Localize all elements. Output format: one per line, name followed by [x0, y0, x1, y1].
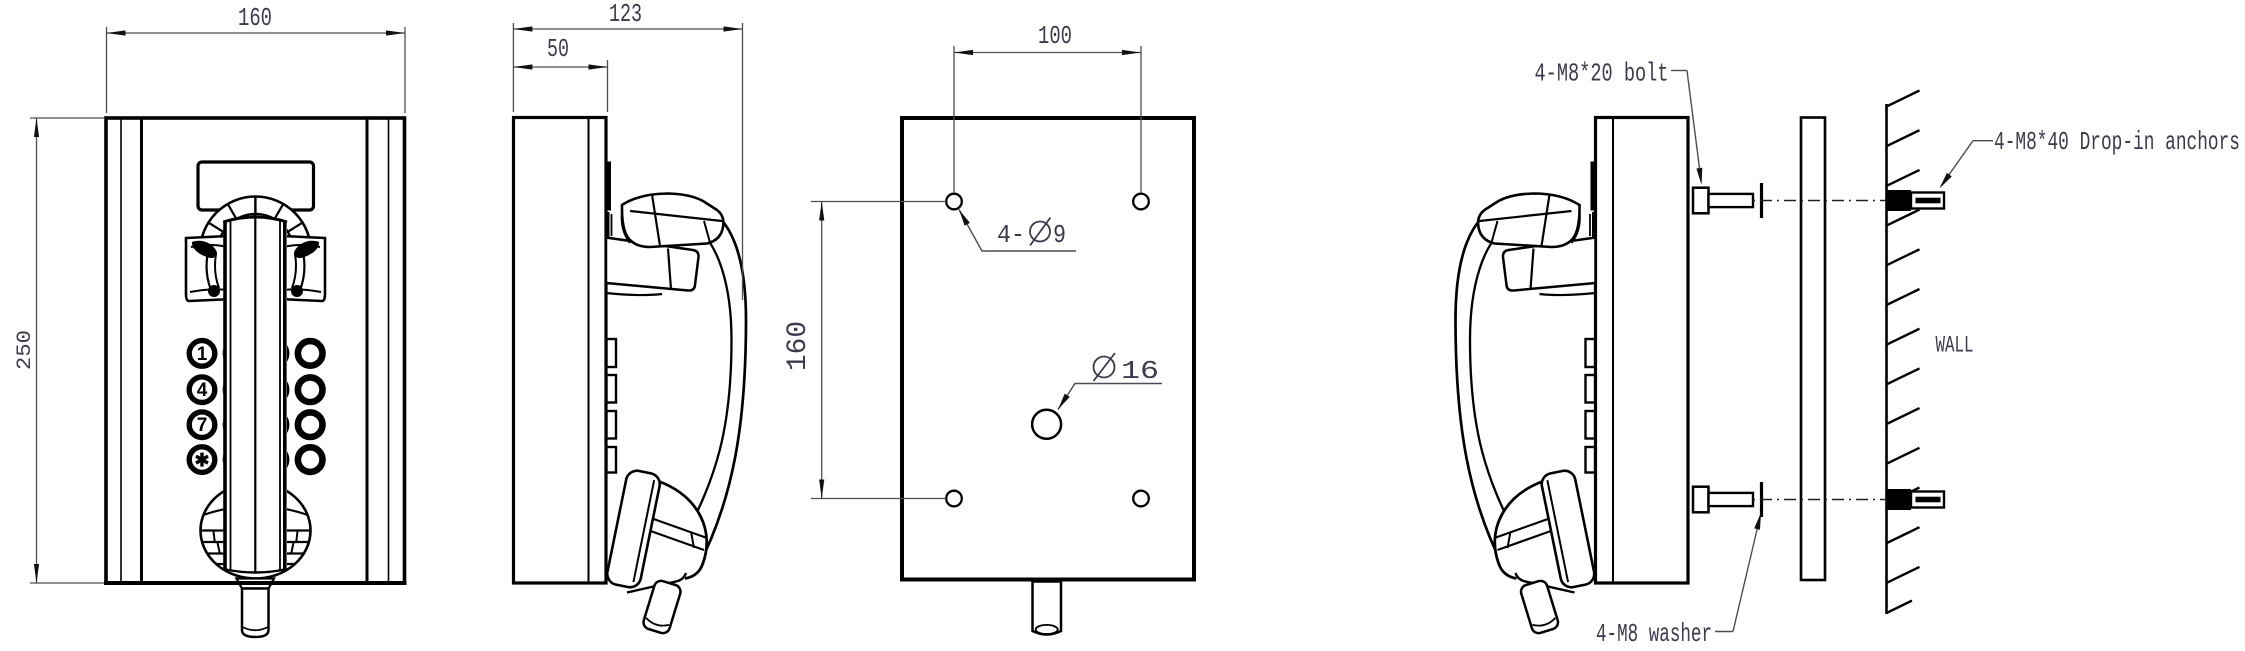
- svg-text:160: 160: [783, 321, 814, 371]
- svg-text:100: 100: [1038, 21, 1072, 51]
- svg-text:160: 160: [238, 3, 272, 33]
- rear view: back plate: [902, 118, 1194, 580]
- rear dim 160: [783, 202, 946, 499]
- front dim 160 top: [107, 3, 406, 113]
- rear leader D16: [1058, 353, 1162, 410]
- svg-text:250: 250: [14, 330, 37, 370]
- front view: mouthpiece dome with louvers: [201, 483, 311, 579]
- install view: top washer: [1760, 183, 1763, 218]
- front view: body bottom edge over dome: [104, 581, 407, 585]
- side dim 50: [513, 34, 607, 112]
- svg-text:4-: 4-: [997, 220, 1025, 250]
- front view: handset handle (vertical): [223, 197, 287, 573]
- svg-text:123: 123: [609, 0, 642, 29]
- svg-text:9: 9: [1053, 220, 1066, 250]
- install view: top drop-in anchor: [1887, 190, 1945, 211]
- svg-text:4: 4: [197, 380, 208, 401]
- svg-text:16: 16: [1121, 356, 1159, 386]
- install view: top bolt M8x20: [1693, 188, 1753, 214]
- install view: bottom drop-in anchor: [1887, 489, 1945, 510]
- rear view: center cable hole: [1032, 410, 1061, 439]
- rear dim 100: [954, 21, 1141, 193]
- front dim 250 left: [14, 118, 104, 583]
- svg-text:7: 7: [197, 415, 208, 436]
- install view: bottom bolt M8x20: [1693, 487, 1753, 513]
- front view: keypad right column buttons: [298, 341, 323, 472]
- install view: mounting plate: [1801, 118, 1825, 581]
- svg-text:4-M8*20 bolt: 4-M8*20 bolt: [1535, 59, 1669, 89]
- side dim 123: [513, 0, 742, 300]
- front view: cable gland: [237, 579, 275, 638]
- front view: left cradle hook: [186, 236, 230, 301]
- svg-text:1: 1: [197, 344, 208, 365]
- rear view: 4 mounting holes: [946, 194, 962, 210]
- label: 4-M8*20 bolt: [1535, 59, 1703, 186]
- svg-text:4-M8 washer: 4-M8 washer: [1596, 619, 1712, 649]
- front view: middle keypad columns (hidden behind handle, slivers visible): [225, 341, 287, 473]
- front view: phone body outline: [106, 118, 405, 583]
- svg-text:WALL: WALL: [1936, 333, 1974, 360]
- install view: wall hatching: [1887, 91, 1920, 614]
- front view: earpiece dome with radial band: [200, 197, 311, 308]
- label: 4-M8 washer: [1596, 513, 1761, 650]
- svg-text:4-M8*40 Drop-in anchors: 4-M8*40 Drop-in anchors: [1994, 127, 2240, 157]
- install view: top centerline: [1753, 200, 1888, 202]
- side view placed: [514, 118, 747, 635]
- install view: bottom washer: [1760, 482, 1763, 517]
- install view: wall line: [1885, 104, 1888, 614]
- svg-text:50: 50: [547, 34, 569, 64]
- rear view: cable gland: [1033, 582, 1062, 635]
- front view: keypad left column buttons 1 4 7 *: [189, 341, 215, 473]
- rear leader 4-D9: [959, 210, 1076, 252]
- label: 4-M8*40 Drop-in anchors: [1940, 127, 2241, 189]
- front view: display window: [198, 162, 314, 210]
- front view: right cradle hook: [281, 236, 325, 301]
- install view: phone mirrored: [1456, 118, 1689, 635]
- install view: bottom centerline: [1753, 499, 1888, 501]
